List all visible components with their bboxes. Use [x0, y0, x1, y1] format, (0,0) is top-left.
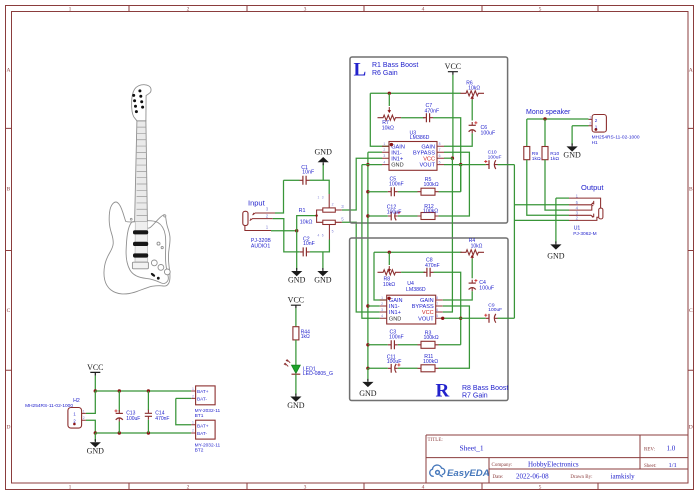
svg-text:100kΩ: 100kΩ: [424, 182, 439, 188]
svg-text:U1: U1: [574, 226, 581, 232]
svg-text:GND: GND: [563, 151, 581, 160]
audio jack pin 3 contact: [253, 213, 275, 215]
svg-text:R7 Gain: R7 Gain: [462, 393, 488, 400]
svg-text:10kΩ: 10kΩ: [471, 244, 483, 250]
resistor R9 1k: [524, 147, 530, 160]
svg-text:LED-0805_G: LED-0805_G: [303, 371, 333, 377]
wire C7 to VOUT node: [433, 118, 461, 192]
potentiometer R6 10k: [460, 91, 484, 96]
capacitor C2 10nF: [303, 247, 306, 256]
junction input ground node: [295, 229, 298, 232]
junction R8 wiper: [388, 251, 391, 254]
capacitor C14 470nF: [145, 413, 152, 416]
svg-text:1kΩ: 1kΩ: [532, 156, 541, 162]
wire H2 pin2 down: [86, 420, 95, 433]
audio jack pin 1 / sleeve lead: [245, 226, 271, 231]
svg-text:1: 1: [383, 142, 385, 146]
junction C14 top: [147, 389, 150, 392]
op-amp U4 LM386D: [387, 295, 436, 324]
svg-text:VCC: VCC: [288, 296, 304, 305]
svg-text:B: B: [689, 187, 693, 193]
svg-text:100uF: 100uF: [488, 154, 502, 160]
wire U4 IN1- left: [368, 305, 380, 307]
connector H2: [68, 408, 82, 429]
svg-text:100uF: 100uF: [126, 416, 140, 422]
R channel section box: [350, 238, 508, 401]
wire LED1 to ground: [295, 374, 297, 395]
svg-text:3: 3: [304, 484, 307, 490]
capacitor C5 100nF: [391, 187, 394, 196]
svg-text:REV:: REV:: [644, 447, 655, 452]
wire R4 wiper to C4: [471, 259, 473, 279]
svg-text:GND: GND: [287, 401, 305, 410]
potentiometer R7 10k: [378, 115, 402, 120]
wire R1 pin3 to U3 IN1+: [342, 158, 382, 210]
R4 wiper arrow: [471, 257, 473, 259]
wire output bus vertical: [513, 165, 515, 319]
svg-text:MH254RS-11-02-1000: MH254RS-11-02-1000: [25, 403, 73, 409]
wire jack pin3 to C1: [275, 180, 284, 213]
svg-text:46: 46: [318, 234, 327, 238]
svg-text:4: 4: [383, 160, 385, 164]
wire C13 bottom lead: [118, 422, 120, 434]
junction U4 VOUT row: [459, 317, 462, 320]
svg-text:R6 Gain: R6 Gain: [372, 70, 398, 77]
svg-text:VOUT: VOUT: [419, 163, 435, 169]
ground flag (output jack): [555, 241, 557, 244]
wire L top rail: [370, 92, 460, 94]
svg-text:10kΩ: 10kΩ: [383, 282, 395, 288]
wire U3 VOUT row: [444, 164, 486, 166]
svg-text:Drawn By:: Drawn By:: [570, 475, 592, 480]
svg-text:13: 13: [318, 195, 327, 199]
svg-text:5: 5: [332, 229, 334, 233]
svg-text:EasyEDA: EasyEDA: [447, 468, 490, 479]
wire C5 left: [368, 191, 388, 193]
potentiometer R8 10k: [378, 270, 402, 275]
wire R9 to jack pin3: [527, 160, 569, 216]
svg-text:LM386D: LM386D: [406, 287, 426, 293]
wire BT1 to BT2: [176, 398, 191, 424]
svg-text:Company:: Company:: [492, 463, 513, 468]
junction U4 VOUT stub: [441, 317, 444, 320]
svg-text:1: 1: [69, 484, 72, 490]
svg-text:100kΩ: 100kΩ: [424, 335, 439, 341]
title block: [426, 435, 688, 483]
svg-text:2: 2: [589, 122, 591, 126]
wire C8 to VOUT node (R): [434, 272, 461, 345]
junction bus C11 row: [366, 367, 369, 370]
junction bottom rail: [94, 431, 97, 434]
resistor R11 100k: [421, 365, 435, 372]
ground flag (below C2): [322, 268, 324, 271]
junction bus GND row: [366, 163, 369, 166]
ground flag (H1): [571, 143, 573, 146]
wire R7 wiper: [388, 93, 390, 106]
svg-text:5: 5: [539, 7, 542, 13]
wire GND flag to C1 net: [322, 164, 324, 181]
wire C9 out: [498, 317, 515, 319]
wire to jack pin2: [514, 219, 569, 221]
wire battery top rail: [95, 390, 191, 392]
wire C12 to R12: [398, 215, 418, 217]
guitar tuning pegs: [132, 94, 135, 97]
wire U3 GND pin row: [362, 164, 382, 166]
ground flag (input): [296, 268, 298, 271]
svg-text:GND: GND: [389, 316, 401, 322]
svg-text:A: A: [7, 68, 11, 74]
wire to R1 common: [297, 216, 317, 231]
wire C11 to R11: [398, 367, 418, 369]
junction C13 bottom: [118, 431, 121, 434]
svg-text:8: 8: [436, 296, 438, 300]
wire C1 left: [284, 179, 300, 181]
svg-text:GND: GND: [87, 447, 105, 456]
svg-text:470nF: 470nF: [425, 108, 440, 114]
wire to battery ground: [94, 433, 96, 441]
wire VCC down to U3 pin6: [452, 75, 454, 158]
svg-text:3: 3: [304, 7, 307, 13]
guitar pickguard: [126, 221, 168, 284]
capacitor C3 100nF: [391, 340, 394, 349]
svg-text:HobbyElectronics: HobbyElectronics: [528, 460, 579, 468]
junction U3 pin1: [390, 143, 393, 146]
junction U4 pin1: [387, 297, 390, 300]
capacitor C4 100uF: [469, 282, 476, 284]
svg-text:R1 Bass Boost: R1 Bass Boost: [372, 62, 418, 69]
capacitor C7 470nF: [426, 113, 429, 122]
wire H1 to ground: [571, 126, 573, 145]
junction bus to U4 IN1-: [366, 304, 369, 307]
svg-text:2: 2: [595, 118, 598, 123]
svg-text:10nF: 10nF: [302, 170, 314, 176]
wire R8 to C8: [401, 271, 425, 273]
wire R5 to VOUT: [460, 165, 462, 192]
wire C3 left: [368, 344, 388, 346]
wire battery bottom rail: [95, 432, 191, 434]
wire to H2 pin1: [86, 391, 95, 413]
guitar neck: [135, 121, 148, 222]
svg-text:D: D: [7, 425, 11, 431]
svg-text:H1: H1: [592, 140, 598, 146]
guitar pickups: [133, 230, 148, 234]
svg-text:100uF: 100uF: [481, 131, 496, 137]
wire long vertical bus: [367, 152, 369, 368]
svg-text:1.0: 1.0: [667, 444, 676, 452]
R7 wiper arrow: [388, 107, 390, 111]
wire C2 right to R1 lower wiper: [310, 240, 330, 252]
wire U3 GND to U4 GND: [362, 165, 380, 319]
svg-text:VOUT: VOUT: [418, 316, 434, 322]
svg-text:7: 7: [436, 302, 438, 306]
svg-text:R1: R1: [299, 208, 306, 214]
audio jack pin 2 contact: [250, 219, 273, 221]
svg-text:D: D: [689, 425, 693, 431]
junction R7 wiper: [388, 92, 391, 95]
svg-text:IN1+: IN1+: [389, 310, 401, 316]
svg-text:1: 1: [83, 409, 85, 413]
resistor R5 100k: [421, 188, 435, 195]
guitar switch and jack: [150, 272, 155, 277]
connector H1: [592, 115, 606, 133]
svg-text:4: 4: [422, 7, 425, 13]
svg-text:10kΩ: 10kΩ: [300, 220, 313, 226]
svg-text:GND: GND: [315, 148, 333, 157]
R8 wiper arrow: [388, 266, 390, 270]
wire jack pin1: [556, 197, 569, 199]
svg-text:2: 2: [187, 484, 190, 490]
wire C3 to R3: [398, 344, 418, 346]
svg-text:AUDIO1: AUDIO1: [251, 243, 270, 249]
svg-text:1kΩ: 1kΩ: [301, 334, 310, 340]
svg-text:VCC: VCC: [445, 62, 461, 71]
svg-text:C: C: [689, 308, 693, 314]
svg-text:3: 3: [383, 154, 385, 158]
wire C5 to R5: [398, 191, 418, 193]
wire R1 pin5 to U4 IN1+: [342, 222, 380, 312]
wire to R10: [544, 119, 546, 147]
svg-text:GND: GND: [359, 389, 377, 398]
svg-text:VCC: VCC: [422, 310, 434, 316]
ground flag (R section): [367, 379, 369, 382]
svg-text:4: 4: [381, 314, 383, 318]
potentiometer R1 right leads: [335, 210, 342, 222]
svg-text:R: R: [436, 381, 450, 402]
svg-text:1: 1: [192, 421, 194, 425]
svg-text:1: 1: [69, 7, 72, 13]
capacitor C10 (polarized): [489, 160, 496, 169]
wire U4 VOUT row: [443, 317, 486, 319]
resistor R44 1k: [293, 327, 299, 340]
resistor R12 100k: [421, 213, 435, 220]
svg-text:GND: GND: [547, 251, 565, 260]
potentiometer R1 common bracket: [317, 210, 323, 222]
wire R11 to U4 pin7: [439, 306, 470, 368]
wire C2 net to ground: [322, 252, 324, 270]
wire pin1 to ground: [555, 198, 557, 243]
svg-text:IN1+: IN1+: [391, 156, 403, 162]
svg-text:GND: GND: [391, 163, 403, 169]
svg-text:Date:: Date:: [493, 475, 504, 480]
potentiometer R4 10k: [460, 250, 484, 255]
svg-text:3: 3: [381, 308, 383, 312]
wire VCC down to U4 pin6: [443, 158, 453, 312]
svg-text:1: 1: [589, 115, 591, 119]
guitar knobs: [151, 242, 170, 275]
svg-text:100nF: 100nF: [389, 181, 404, 187]
guitar bridge: [132, 262, 148, 269]
wire to R3: [439, 344, 461, 346]
wire R8 wiper: [388, 252, 390, 265]
svg-text:2: 2: [381, 302, 383, 306]
svg-text:100kΩ: 100kΩ: [423, 209, 438, 215]
wire U3 IN1- left: [368, 151, 382, 153]
audio jack AUDIO1 sleeve: [243, 211, 248, 225]
resistor R3 100k: [421, 341, 435, 348]
svg-text:2: 2: [332, 203, 334, 207]
junction bus C12 row: [366, 214, 369, 217]
resistor R10 1k: [542, 147, 548, 160]
ground flag (input top): [322, 162, 324, 165]
junction VCC at U3: [451, 157, 454, 160]
wire to jack pin5: [514, 204, 569, 206]
svg-text:MH254RS-11-02-1000: MH254RS-11-02-1000: [592, 135, 640, 141]
svg-text:5: 5: [539, 484, 542, 490]
svg-text:1: 1: [381, 296, 383, 300]
junction C14 bottom: [147, 431, 150, 434]
svg-text:10kΩ: 10kΩ: [468, 86, 480, 92]
junction speaker rail: [543, 117, 546, 120]
svg-text:Sheet:: Sheet:: [644, 464, 657, 469]
guitar illustration: [104, 85, 170, 294]
wire to R5: [439, 191, 461, 193]
junction C13 top: [118, 389, 121, 392]
svg-text:2: 2: [192, 429, 194, 433]
wire to ground: [296, 231, 298, 270]
svg-text:470nF: 470nF: [155, 416, 169, 422]
VCC net flag: [90, 372, 100, 375]
svg-text:10kΩ: 10kΩ: [382, 125, 394, 131]
svg-text:GND: GND: [288, 275, 306, 284]
guitar headstock: [132, 85, 151, 121]
junction VOUT row: [459, 163, 462, 166]
wire C14 top lead: [147, 391, 149, 410]
wire speaker rail: [527, 118, 589, 120]
wire jack pin2 to C2: [273, 219, 300, 252]
svg-text:4: 4: [422, 484, 425, 490]
svg-text:VCC: VCC: [423, 156, 435, 162]
ground flag (LED): [295, 394, 297, 397]
svg-text:10nF: 10nF: [303, 241, 315, 247]
VCC net flag: [448, 72, 458, 75]
svg-text:7: 7: [439, 148, 441, 152]
guitar body: [104, 202, 170, 294]
wire R6 wiper to C6: [471, 100, 473, 121]
svg-text:6: 6: [439, 154, 441, 158]
wire to U3 VCC pin: [444, 157, 452, 159]
wire jack pin1: [271, 230, 297, 232]
svg-text:L: L: [354, 60, 367, 81]
potentiometer R1 upper gang: [323, 208, 336, 212]
capacitor C13 100uF: [116, 412, 123, 414]
wire C13 top lead: [118, 391, 120, 412]
ground flag (battery): [94, 439, 96, 442]
wire C12 left: [368, 215, 388, 217]
wire C1 right to R1 wiper: [310, 180, 330, 194]
svg-text:BAT-: BAT-: [197, 431, 208, 436]
svg-text:C: C: [7, 308, 11, 314]
svg-text:2: 2: [83, 416, 85, 420]
junction VCC rail: [94, 389, 97, 392]
svg-text:Input: Input: [248, 198, 266, 207]
svg-text:A: A: [689, 68, 693, 74]
svg-text:2022-06-08: 2022-06-08: [516, 472, 549, 480]
wire VCC to R44: [295, 308, 297, 326]
LED LED1: [292, 365, 301, 373]
wire H1 pin1: [572, 125, 588, 127]
svg-text:470nF: 470nF: [425, 263, 440, 269]
wire C11 left: [368, 367, 388, 369]
svg-text:8: 8: [439, 142, 441, 146]
svg-text:1kΩ: 1kΩ: [550, 156, 559, 162]
svg-text:GND: GND: [314, 275, 332, 284]
svg-text:BAT+: BAT+: [197, 424, 209, 429]
R1 lower wiper pin lead: [328, 224, 330, 239]
wire C14 bottom lead: [147, 420, 149, 433]
junction bus C3 row: [366, 343, 369, 346]
wire bus to ground: [367, 368, 369, 380]
wire rail to U3 pin1: [370, 93, 389, 146]
svg-text:1: 1: [192, 387, 194, 391]
wire C4 to U4 pin8: [443, 291, 473, 300]
capacitor C12 100uF: [390, 212, 392, 221]
capacitor C1 10nF: [303, 176, 306, 185]
svg-text:5: 5: [439, 160, 441, 164]
wire rail to U4 pin1: [374, 252, 387, 300]
svg-text:2: 2: [187, 7, 190, 13]
svg-text:TITLE:: TITLE:: [428, 438, 443, 443]
svg-text:B: B: [7, 187, 11, 193]
wire R44 to LED1: [295, 340, 297, 365]
R1 wiper top pin lead: [328, 194, 330, 208]
svg-text:BAT+: BAT+: [197, 389, 209, 394]
EasyEDA logo: [430, 465, 445, 477]
svg-text:2: 2: [192, 394, 194, 398]
svg-text:100nF: 100nF: [389, 334, 404, 340]
capacitor C9 (polarized): [489, 314, 496, 323]
wire R7 to C7: [401, 117, 424, 119]
L channel section box: [350, 57, 508, 223]
capacitor C11 100uF: [390, 364, 392, 373]
svg-text:iamkisly: iamkisly: [611, 472, 636, 480]
capacitor C8 470nF: [427, 268, 430, 277]
svg-text:100uF: 100uF: [488, 307, 502, 313]
svg-text:Mono speaker: Mono speaker: [526, 109, 571, 116]
output jack U1: [569, 198, 601, 208]
svg-text:1/1: 1/1: [669, 462, 677, 469]
svg-text:LM386D: LM386D: [410, 135, 430, 141]
VCC net flag: [291, 305, 301, 308]
svg-text:PJ-3062-M: PJ-3062-M: [573, 231, 596, 237]
battery BT2: [196, 420, 216, 439]
wire C10 out: [498, 164, 515, 166]
svg-text:100uF: 100uF: [479, 285, 494, 291]
capacitor C6 100uF: [469, 124, 476, 126]
svg-text:5: 5: [436, 314, 438, 318]
wire C6 to U3 pin8: [444, 133, 472, 146]
svg-text:VCC: VCC: [87, 363, 103, 372]
op-amp U3 LM386D: [389, 142, 437, 171]
svg-text:6: 6: [436, 308, 438, 312]
svg-text:BT2: BT2: [195, 447, 204, 453]
svg-text:100uF: 100uF: [387, 209, 402, 215]
R6 wiper arrow: [471, 98, 473, 100]
wire R top rail: [374, 251, 462, 253]
battery BT1: [196, 386, 216, 405]
svg-text:Sheet_1: Sheet_1: [460, 443, 484, 452]
wire R10 to jack pin4: [545, 160, 569, 210]
wire BT1 pin2: [176, 397, 191, 399]
junction bus C5 row: [366, 190, 369, 193]
wire VCC to rail: [94, 376, 96, 391]
svg-text:2: 2: [383, 148, 385, 152]
svg-text:100kΩ: 100kΩ: [423, 359, 438, 365]
svg-text:100uF: 100uF: [387, 359, 402, 365]
wire to R9: [526, 119, 528, 147]
svg-text:BT1: BT1: [195, 413, 204, 419]
svg-text:H2: H2: [73, 398, 80, 404]
svg-text:R8 Bass Boost: R8 Bass Boost: [462, 385, 508, 392]
